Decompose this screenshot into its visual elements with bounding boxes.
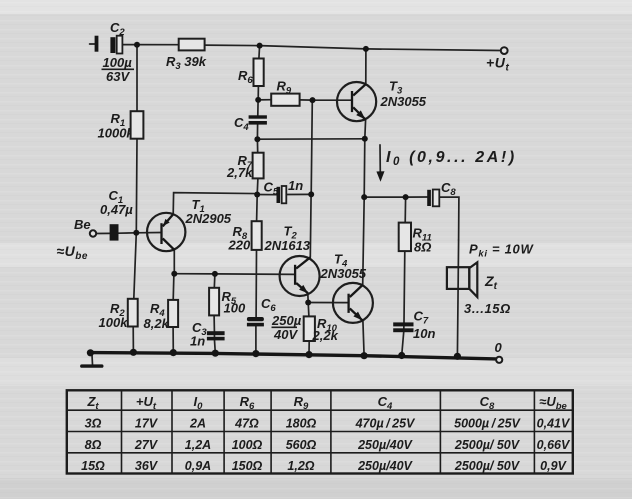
svg-text:100: 100 [224, 301, 246, 316]
terminal Be (input) [90, 230, 96, 236]
capacitor C1 [110, 224, 119, 240]
junction rail / R4 [170, 349, 177, 356]
wire C5 node down to T2 collector [309, 194, 312, 257]
table column lines [121, 390, 123, 473]
table header row [86, 394, 567, 412]
svg-text:0,41V: 0,41V [537, 417, 571, 431]
wire ground rail [90, 353, 496, 359]
svg-text:1n: 1n [190, 334, 205, 349]
wire R1-R2 column from top rail to input node [135, 45, 138, 233]
junction rail / C3 [212, 350, 219, 357]
ground symbol [91, 353, 94, 364]
terminal 0 (ground) [496, 357, 502, 363]
junction rail / R2 [130, 349, 137, 356]
svg-text:100µ: 100µ [103, 55, 133, 70]
wire output node to R11 and C8 [364, 196, 427, 198]
svg-text:8Ω: 8Ω [85, 438, 102, 452]
junction R5 top [212, 271, 218, 277]
svg-text:3...15Ω: 3...15Ω [464, 301, 511, 316]
junction rail / C7 [398, 352, 405, 359]
wire R4 stub [172, 274, 175, 353]
svg-text:2,2k: 2,2k [312, 328, 339, 343]
transistor T1 [147, 213, 185, 251]
wire T3 base [313, 99, 352, 101]
resistor R11 [399, 223, 411, 252]
wire R11 down through C7 to rail [402, 197, 406, 355]
svg-text:I0 (0,9... 2A!): I0 (0,9... 2A!) [386, 149, 517, 168]
svg-text:0: 0 [495, 340, 503, 355]
junction output node to load [361, 194, 367, 200]
svg-text:560Ω: 560Ω [286, 438, 317, 452]
current arrow I0 [379, 145, 381, 174]
svg-text:5000µ / 25V: 5000µ / 25V [454, 417, 521, 431]
svg-text:17V: 17V [135, 417, 159, 431]
loudspeaker Zt [447, 267, 469, 289]
junction rail / R10 [305, 351, 312, 358]
junction bootstrap C4 bottom [254, 136, 260, 142]
wire T3 emitter down through output junctions to T4 collector [363, 120, 366, 285]
table row 1 values [85, 417, 571, 431]
junction T3 base / R9 [310, 97, 316, 103]
table outer border [67, 390, 573, 473]
svg-text:1n: 1n [288, 178, 303, 193]
wire C4 to bootstrap node [256, 125, 258, 140]
resistor R5 [209, 288, 219, 316]
svg-text:100k: 100k [99, 315, 129, 330]
svg-text:0,9V: 0,9V [540, 459, 567, 473]
svg-text:10n: 10n [413, 326, 435, 341]
wire T3 collector from top rail [365, 49, 367, 84]
svg-text:27V: 27V [134, 438, 159, 452]
TABLE [67, 390, 573, 473]
wire T2 emitter down to R10 node [307, 293, 309, 302]
wire R8 down to C6 [255, 250, 257, 317]
svg-text:2N2905: 2N2905 [185, 211, 232, 226]
wire Be terminal to C1 [96, 232, 109, 234]
table row lines [67, 409, 573, 411]
wire C8 to speaker line [439, 197, 459, 240]
junction node A R6/R9/C4 [255, 97, 261, 103]
svg-text:2N3055: 2N3055 [320, 266, 367, 281]
wire T4 emitter to ground rail [363, 321, 364, 356]
junction top rail / T3 collector [363, 46, 369, 52]
junction feedback node R7/R8/C5 [254, 192, 260, 198]
wire top supply rail [90, 43, 95, 45]
svg-text:40V: 40V [273, 327, 298, 342]
wire T3 base node down to C5 node [311, 100, 312, 194]
svg-text:2,7k: 2,7k [226, 165, 253, 180]
wire bootstrap horizontal C4 to output [257, 138, 364, 140]
junction top rail / R6 [257, 43, 263, 49]
svg-text:47Ω: 47Ω [234, 417, 259, 431]
svg-text:1,2A: 1,2A [185, 438, 211, 452]
table row 2 values [85, 438, 571, 452]
svg-text:2500µ/ 50V: 2500µ/ 50V [454, 438, 521, 452]
svg-text:2A: 2A [189, 417, 206, 431]
wire C5 to T2 collector line [286, 193, 311, 195]
svg-text:8Ω: 8Ω [414, 240, 431, 255]
junction rail / C6 [252, 350, 259, 357]
svg-text:250µ/40V: 250µ/40V [357, 438, 413, 452]
junction T2 emitter / R10 / T4 base [305, 300, 311, 306]
wire R7 to feedback node [256, 178, 259, 194]
wire mid horizontal line to T2 base [174, 273, 294, 276]
svg-text:Be: Be [74, 217, 91, 232]
terminal +Ut [501, 47, 508, 54]
svg-text:8,2k: 8,2k [144, 316, 170, 331]
junction C5 / T2 collector [308, 191, 314, 197]
wire speaker line down to ground rail [457, 240, 458, 356]
capacitor C8 [427, 190, 431, 206]
wire T1 collector down to R4/R5 line [173, 250, 175, 274]
wire input node down to R2 [133, 233, 136, 352]
wire R6 to node A [257, 86, 259, 100]
svg-text:470µ / 25V: 470µ / 25V [355, 417, 416, 431]
wire T1 emitter up and over to R7/R8 node [173, 193, 257, 215]
junction top rail / R1 [134, 42, 140, 48]
junction R11 top [403, 194, 409, 200]
wire top rail C2 to +Ut [122, 45, 500, 51]
junction T1 collector / R4 [171, 271, 177, 277]
table row 3 values [81, 459, 567, 473]
transistor T4 [333, 283, 373, 323]
junction rail / T4 emitter [361, 352, 368, 359]
wire node A to R9 [258, 99, 271, 101]
wire feedback node to R8 [256, 195, 259, 222]
svg-text:250µ/40V: 250µ/40V [357, 459, 413, 473]
wire node A to C4 [257, 100, 259, 115]
wire feedback node to C5 [257, 194, 276, 196]
junction rail / ground [87, 349, 94, 356]
svg-text:3Ω: 3Ω [85, 417, 102, 431]
svg-text:2N3055: 2N3055 [380, 94, 427, 109]
svg-text:150Ω: 150Ω [232, 459, 263, 473]
svg-text:0,47µ: 0,47µ [100, 202, 133, 217]
svg-text:180Ω: 180Ω [286, 417, 317, 431]
svg-text:220: 220 [228, 238, 251, 253]
svg-text:0,66V: 0,66V [537, 438, 571, 452]
svg-text:250µ: 250µ [271, 313, 302, 328]
transistor T2 [280, 256, 320, 296]
wire R10 stub [308, 303, 309, 355]
wire C6 to ground rail [255, 326, 257, 353]
wire R5/C3 stub [214, 274, 215, 353]
junction input node [133, 230, 139, 236]
junction rail / speaker [454, 353, 461, 360]
svg-text:63V: 63V [106, 69, 130, 84]
svg-text:2500µ/ 50V: 2500µ/ 50V [454, 459, 521, 473]
wire R6 top stub [258, 46, 261, 59]
wire C1 to input node [119, 232, 137, 234]
transistor T3 [337, 82, 376, 121]
svg-text:1,2Ω: 1,2Ω [287, 459, 314, 473]
svg-text:15Ω: 15Ω [81, 459, 105, 473]
resistor R10 [304, 316, 315, 341]
wire T1 base [136, 232, 160, 234]
wire R9 to T3 base node [300, 99, 313, 101]
svg-text:2N1613: 2N1613 [264, 238, 311, 253]
wire T4 base [308, 302, 347, 304]
wire bootstrap node to R7 [256, 139, 258, 153]
junction output / bootstrap [362, 136, 368, 142]
svg-text:100Ω: 100Ω [232, 438, 263, 452]
svg-text:0,9A: 0,9A [185, 459, 211, 473]
capacitor C2 [95, 36, 99, 52]
svg-text:1000k: 1000k [98, 126, 135, 141]
svg-text:36V: 36V [135, 459, 159, 473]
